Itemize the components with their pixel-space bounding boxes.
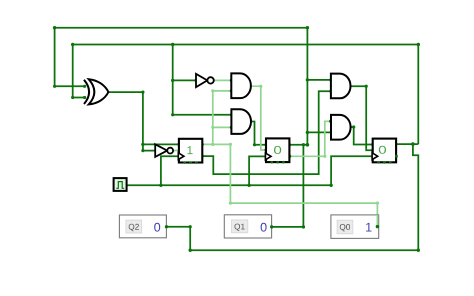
wire to probe Q1 xyxy=(272,145,304,227)
flip-flop FF3 (value 0) xyxy=(372,139,398,164)
and gate U6 (AND4) xyxy=(331,115,351,140)
wire AND3 input A branch xyxy=(307,79,331,81)
clock CLK xyxy=(114,178,127,191)
wire net XOR output to FF1 J and NOT2 xyxy=(108,92,155,151)
probe Q0 (value 1) xyxy=(331,215,379,239)
wire net FF1 Qbar to AND3 input B xyxy=(202,91,331,174)
wire NOT1 input branch xyxy=(173,79,196,81)
wire FF3 Q output stub xyxy=(395,143,419,145)
wire AND4 input B branch xyxy=(307,131,331,133)
probe Q2 (value 0) xyxy=(119,215,168,238)
wire riser to AND2 input A xyxy=(173,45,232,115)
junction dots light nets xyxy=(211,85,379,205)
wire net AND1 output (high) to FF2 K xyxy=(250,86,266,150)
wire net NOT2 output (high) to FF1 K xyxy=(173,150,179,152)
not gate U7 (inverter feeding FF1 K) xyxy=(155,144,173,157)
wire net AND3 output to FF3 K xyxy=(350,86,373,150)
wire jog down to bottom rail and probe Q2 xyxy=(166,144,418,250)
wire clock riser to FF2 C xyxy=(249,156,266,185)
and gate U3 (AND1) xyxy=(231,73,251,98)
wire net Q1: top feedback rail from FF2.Q to XOR input A xyxy=(55,28,308,145)
wire net AND4 output to FF3 J xyxy=(350,127,373,145)
wire net AND2 output to FF2 J xyxy=(250,122,266,145)
wire FF1 J input branch xyxy=(143,143,179,145)
xor gate U1 xyxy=(84,79,108,104)
wire net clock rail xyxy=(127,184,331,186)
wire XOR input A stub xyxy=(55,85,85,87)
wire net FF1 Q (high) to AND inputs and probe Q0 xyxy=(202,144,377,226)
wire clock riser to FF3 C xyxy=(331,156,373,185)
wire FF1 Q riser to AND1 input B xyxy=(213,91,232,144)
wire clock riser to FF1 C xyxy=(161,156,179,185)
and gate U5 (AND3) xyxy=(331,74,351,99)
probe Q1 (value 0) xyxy=(224,215,273,238)
wire XOR input B stub xyxy=(73,97,85,99)
flip-flop FF1 (value 1) xyxy=(178,139,202,164)
and gate U4 (AND2) xyxy=(231,109,251,134)
wire FF1 Q branch to AND2 input B xyxy=(213,126,232,128)
junction dots dark nets xyxy=(53,26,420,252)
wire net FF2 Qbar (high) to AND4 input A xyxy=(290,121,331,156)
not gate U2 (inverter feeding AND1) xyxy=(196,74,214,87)
wire net NOT1 output (high) to AND1 input A xyxy=(214,79,232,81)
wire FF2 Q output stub xyxy=(290,144,308,146)
wire net Q0: second feedback rail from FF3.Q xyxy=(73,45,419,145)
flip-flop FF2 (value 0) xyxy=(265,138,289,163)
